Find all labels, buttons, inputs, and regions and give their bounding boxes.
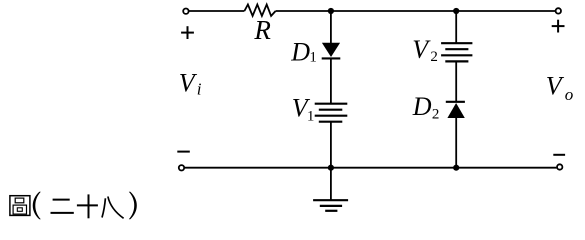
wire: top-left terminal to resistor — [189, 10, 244, 12]
diode D2 (cathode up) — [446, 102, 465, 118]
svg-text:1: 1 — [307, 108, 315, 124]
plus sign (input) — [181, 26, 194, 39]
label V2 — [412, 35, 438, 65]
svg-text:2: 2 — [430, 49, 438, 65]
wire: bottom rail — [185, 167, 557, 169]
caption opening parenthesis — [33, 192, 41, 220]
wire: ground stem — [330, 168, 332, 201]
caption closing parenthesis — [129, 192, 137, 220]
label V1 — [292, 93, 315, 124]
plus sign (output) — [552, 20, 565, 33]
minus sign (input) — [177, 151, 190, 153]
label Vi — [179, 68, 202, 98]
input terminal top-left — [183, 9, 188, 14]
wire: D1 to battery V1 — [330, 59, 332, 103]
node: bottom junction of branch 1 — [328, 165, 334, 171]
svg-text:1: 1 — [309, 50, 317, 66]
svg-text:o: o — [565, 85, 574, 104]
input terminal bottom-left — [179, 165, 184, 170]
svg-text:2: 2 — [432, 106, 440, 122]
output terminal top-right — [556, 8, 561, 13]
svg-text:D: D — [290, 37, 310, 66]
wire: battery V1 to bottom rail node — [330, 122, 332, 168]
wire: resistor to top-right terminal — [276, 10, 555, 12]
caption character 八 — [102, 197, 124, 219]
node: top junction of branch 2 — [453, 8, 459, 14]
label Vo — [546, 71, 574, 104]
caption character 圖 — [10, 196, 30, 216]
output terminal bottom-right — [557, 164, 562, 169]
wire: top rail down to battery V2 — [455, 11, 457, 43]
wire: top rail down to D1 — [330, 11, 332, 43]
svg-text:R: R — [253, 15, 271, 45]
diode D1 (cathode down) — [322, 43, 341, 59]
caption character 十 — [77, 194, 98, 218]
node: top junction of branch 1 — [328, 8, 334, 14]
battery V1 (two cells) — [315, 104, 348, 122]
label D2 — [412, 92, 440, 122]
ground — [313, 200, 348, 211]
svg-text:i: i — [197, 79, 202, 98]
svg-text:V: V — [412, 35, 431, 64]
svg-text:D: D — [412, 92, 432, 121]
resistor R — [244, 5, 275, 16]
caption character 二 — [51, 200, 74, 213]
label D1 — [290, 37, 317, 66]
svg-text:V: V — [179, 68, 198, 97]
battery V2 (two cells) — [441, 43, 472, 61]
wire: battery V2 to D2 — [455, 61, 457, 101]
wire: D2 to bottom rail node — [455, 118, 457, 168]
minus sign (output) — [553, 154, 565, 156]
node: bottom junction of branch 2 — [453, 165, 459, 171]
svg-text:V: V — [546, 71, 565, 100]
